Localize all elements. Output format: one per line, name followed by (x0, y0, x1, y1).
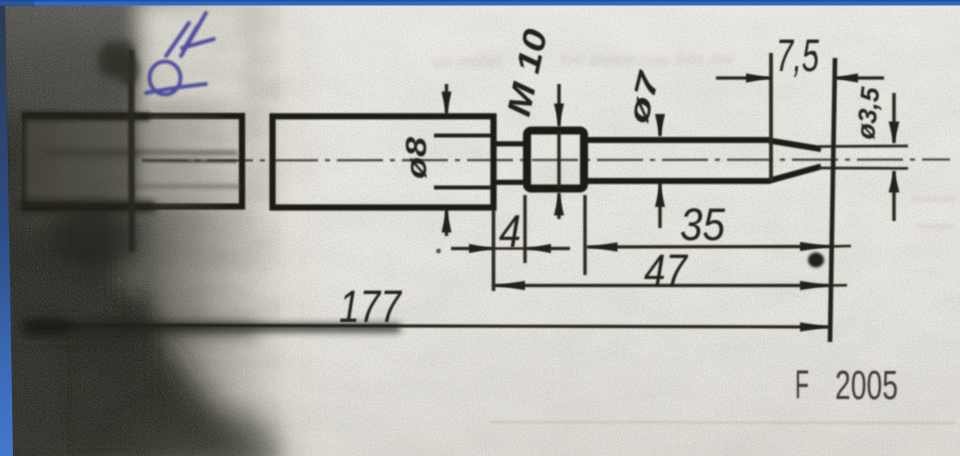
arrow 47 left (495, 281, 525, 290)
177 line left smudged thick band (25, 327, 400, 328)
arrow phi8 bottom (442, 210, 452, 233)
svg-text:hm anrieh rnai: hm anrieh rnai (560, 51, 670, 70)
smudge streak inside piece1 lower (30, 184, 242, 189)
177 left arrow blob (24, 318, 72, 336)
177 extra wide smear left (20, 329, 255, 330)
ghost faint underline bottom right (490, 422, 956, 423)
dark smear over piece1 bottom edge left (20, 201, 155, 213)
centerline (axis) (142, 160, 950, 161)
47 tail past datum (832, 284, 847, 287)
small speck left of 4-dim (436, 249, 441, 254)
M10 left extension down (523, 195, 526, 263)
dimension 47 horizontal (495, 284, 830, 287)
dark blob below cylinder left (50, 208, 140, 268)
arrow phi8 top (442, 92, 452, 115)
dimension 4 horizontal (451, 247, 570, 250)
taper cone (769, 141, 821, 181)
hex / thread section M10 block (527, 131, 584, 189)
digit 4 arm (184, 27, 197, 49)
phi7 shaft top/bottom (586, 140, 770, 181)
arrow M10 top (554, 104, 564, 127)
light zone behind phi14 text (136, 0, 248, 204)
dimension 7,5 horizontal (716, 76, 884, 79)
handwritten blue phi14 (146, 13, 214, 95)
top-left dark band (0, 0, 126, 114)
svg-text:ben niw: ben niw (676, 49, 736, 68)
M10 right extension down (583, 195, 586, 275)
arrow 35 right (800, 242, 830, 251)
smudge streak inside piece1 upper (30, 151, 238, 153)
arrow 177 right (800, 322, 830, 331)
bottom-left dark bulge (0, 225, 292, 456)
svg-text:un rnsfiel: un rnsfiel (433, 52, 503, 71)
arrow phi3.5 bottom (889, 171, 900, 193)
blue top strip (0, 0, 960, 6)
ghost faint marks right edge (912, 199, 956, 227)
arrow 47 right (800, 281, 830, 290)
svg-text:7,5: 7,5 (776, 30, 820, 81)
svg-text:2005: 2005 (835, 362, 898, 408)
arrow M10 bottom (554, 193, 564, 216)
arrow phi7 bottom (655, 184, 665, 207)
arrow 4 left (points right at x=493) (469, 244, 493, 253)
35 tail past datum (832, 245, 851, 248)
dimension 177 horizontal (38, 325, 830, 327)
tip extension lines (phi3.5) (818, 146, 908, 168)
thread root lines near step (434, 136, 491, 188)
light speckle in dark left zone (0, 0, 300, 456)
arrow phi7 top (655, 114, 665, 137)
arrow 7,5 left (points right at x=771) (746, 73, 771, 82)
digit 4 crossbar (182, 39, 214, 48)
stamp F 2005 (795, 362, 898, 408)
left scan shadow gradient (0, 0, 330, 456)
small speck above datum line (812, 51, 816, 55)
arrow 4 right (points left at x=527) (527, 244, 551, 253)
smudges over left cylinder (24, 114, 242, 208)
svg-text:35: 35 (680, 199, 726, 250)
ink dot blob right of 35 line (808, 253, 824, 268)
extension line A (taper start, x=771) (769, 53, 773, 181)
neck (thread relief groove) (492, 144, 528, 183)
dimension 35 horizontal (587, 245, 830, 249)
extension line B (tip end / right datum) (830, 58, 835, 342)
arrow 7,5 right (points left at x=833) (833, 73, 858, 82)
pencil line halo (131, 55, 132, 268)
dimension M10 vertical line (557, 84, 560, 219)
phi slash (146, 84, 206, 93)
dark streak centerline left segment (45, 150, 140, 157)
svg-text:ø3,5: ø3,5 (850, 85, 885, 140)
dimension phi3.5 vertical line (892, 93, 895, 221)
digit 1 (166, 23, 189, 56)
dark smear over piece1 top edge left (22, 112, 150, 121)
blue left edge wedge (0, 0, 13, 456)
arrow phi3.5 top (889, 122, 900, 144)
svg-text:F: F (795, 363, 809, 407)
svg-text:ø8: ø8 (401, 136, 433, 179)
phi circle (150, 62, 181, 95)
svg-text:4: 4 (499, 205, 521, 257)
arrow 35 left (588, 242, 618, 251)
digit 4 stem (181, 13, 206, 56)
soft shade around left cylinder (10, 95, 140, 230)
ghost bleed-through text row (433, 49, 736, 71)
haze over left part of piece1 (24, 114, 224, 208)
dimension phi7 vertical line (658, 120, 661, 228)
dimension texts (339, 25, 885, 332)
shaft piece 2 (cylinder after break) (273, 116, 494, 207)
step extension line down (492, 209, 496, 291)
dark blob top of pencil line (98, 42, 126, 78)
pencil phi14 dimension line (128, 50, 135, 252)
svg-text:47: 47 (644, 245, 689, 296)
dimension phi8 vertical line (445, 84, 448, 236)
arrowheads (436, 51, 899, 332)
shaft piece 1 (left cylinder) (26, 116, 243, 207)
centerline darker left segment (142, 159, 237, 163)
extra dark left column (0, 5, 58, 456)
mid-left dark patch (0, 195, 112, 335)
